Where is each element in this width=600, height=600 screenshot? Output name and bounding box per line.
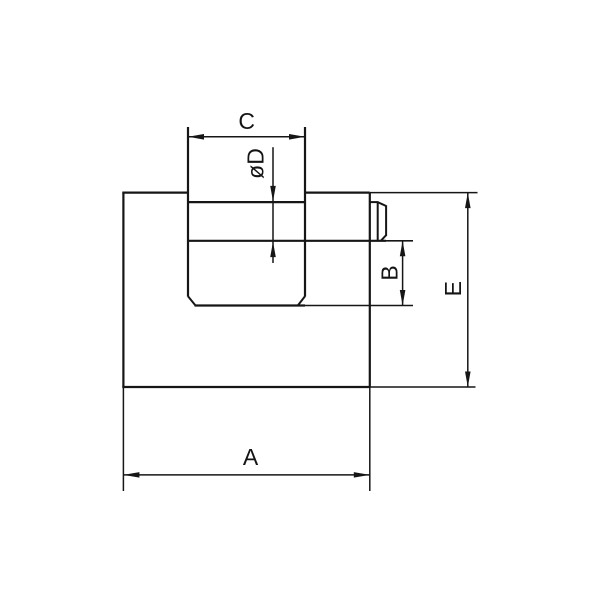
- arrowhead D down (at bolt top edge): [270, 186, 276, 202]
- arrowhead A left: [123, 472, 139, 478]
- bolt end cap right face: [385, 205, 387, 236]
- block bottom edge: [195, 304, 306, 306]
- arrowhead E down: [465, 372, 471, 388]
- dimension line B: [402, 241, 404, 306]
- block bottom-left chamfer: [188, 296, 196, 305]
- svg-text:C: C: [238, 108, 255, 134]
- svg-text:B: B: [376, 265, 402, 280]
- extension line A right (body right edge extended): [369, 387, 371, 491]
- body right edge: [369, 193, 371, 387]
- body top edge right segment: [305, 192, 370, 194]
- svg-text:E: E: [440, 281, 466, 296]
- extension line B top (bolt bottom edge extended): [386, 240, 413, 242]
- svg-text:øD: øD: [243, 148, 269, 179]
- block right edge: [304, 127, 306, 297]
- block bottom-right chamfer: [298, 296, 305, 305]
- dimension line E: [467, 193, 469, 387]
- arrowhead D up (at bolt bottom edge): [270, 242, 276, 258]
- body left edge: [122, 193, 124, 387]
- arrowhead C right: [289, 134, 305, 140]
- arrowhead E up: [465, 193, 471, 209]
- extension line B bottom (block bottom edge extended): [305, 305, 413, 307]
- bolt end cap bottom chamfer: [381, 235, 386, 241]
- arrowhead B down: [400, 290, 406, 306]
- arrowhead A right: [354, 472, 370, 478]
- dimension line D (vertical through bolt): [272, 147, 274, 263]
- bolt top edge (through block): [188, 201, 305, 203]
- extension line E bottom (body bottom edge extended): [370, 386, 476, 388]
- svg-text:A: A: [243, 444, 259, 470]
- extension line E top (body top edge extended): [370, 192, 478, 194]
- bolt bottom edge: [188, 240, 386, 242]
- bolt end cap top chamfer: [378, 202, 386, 206]
- dimension line C: [188, 136, 305, 138]
- dimension line A: [123, 474, 369, 476]
- block left edge: [187, 127, 189, 297]
- extension line A left (body left edge extended): [122, 387, 124, 491]
- body bottom edge: [122, 386, 369, 388]
- arrowhead C left: [188, 134, 204, 140]
- bolt end cap inner vertical: [377, 202, 379, 241]
- arrowhead B up: [400, 241, 406, 256]
- bolt top edge (right of body edge): [370, 201, 378, 203]
- body top edge left segment: [122, 192, 188, 194]
